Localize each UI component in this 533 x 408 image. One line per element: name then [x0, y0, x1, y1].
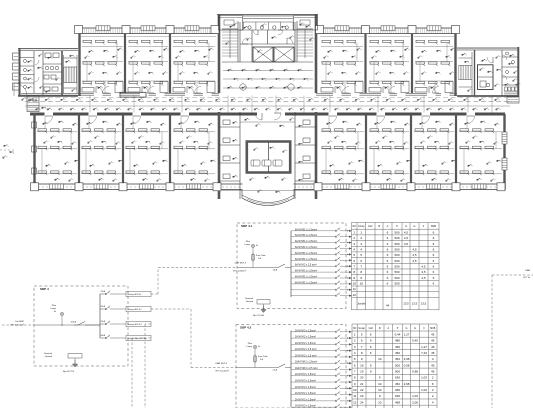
svg-text:45: 45: [431, 351, 435, 355]
svg-text:4,5: 4,5: [404, 236, 409, 240]
tower top center textured band and stalls: [243, 15, 293, 17]
floor plan: left site feeder marks: [3, 144, 9, 148]
svg-text:1,27: 1,27: [404, 332, 410, 336]
svg-text:480: 480: [395, 339, 400, 343]
right annex lavatory cluster: [505, 87, 508, 91]
svg-text:4,5: 4,5: [404, 230, 409, 234]
svg-text:45: 45: [431, 369, 435, 373]
svg-text:4,5: 4,5: [412, 259, 417, 263]
floor plan: left annex: [18, 48, 78, 50]
branch circuit 3 SDP4.2: [291, 343, 336, 345]
svg-text:500: 500: [394, 270, 399, 274]
svg-text:SDP 4.1: SDP 4.1: [241, 224, 252, 228]
branch circuit 1 SDP4.1: [291, 230, 336, 232]
wire feeder into SDP 4.2: [236, 367, 278, 369]
svg-text:Din MSP: Din MSP: [15, 321, 24, 323]
svg-text:450: 450: [395, 345, 400, 349]
svg-text:6A NYM3 1 x 2,5mm²: 6A NYM3 1 x 2,5mm²: [295, 240, 317, 243]
floor plan: gray structural walls: [218, 14, 221, 93]
svg-text:Pilot: Pilot: [246, 240, 251, 243]
svg-text:Backup SDP 4-2: Backup SDP 4-2: [128, 309, 142, 311]
branch circuit 9 SDP4.2: [291, 381, 336, 383]
svg-text:3x: 3x: [256, 245, 258, 247]
svg-text:5,45: 5,45: [412, 339, 418, 343]
svg-text:NYY 4x: NYY 4x: [523, 277, 530, 279]
svg-text:22: 22: [360, 388, 364, 392]
pilot lamp SDP4: [60, 312, 63, 315]
svg-text:Group: Group: [359, 327, 366, 330]
pilot lamp SDP4.1: [251, 244, 254, 247]
branch circuit 2 SDP4.2: [291, 337, 336, 339]
right annex right column cells: [502, 56, 518, 58]
svg-text:Backup SDP 4-1: Backup SDP 4-1: [128, 294, 142, 296]
svg-text:2A NYM 2 x 1,5 mm²: 2A NYM 2 x 1,5 mm²: [295, 348, 317, 351]
svg-text:13,5: 13,5: [403, 301, 409, 305]
right annex stair: [458, 66, 460, 80]
svg-text:Fuse Tube: Fuse Tube: [256, 255, 266, 257]
svg-text:2A NYM 2 x 1,5mm²: 2A NYM 2 x 1,5mm²: [295, 336, 316, 339]
svg-text:452: 452: [395, 357, 400, 361]
svg-text:Inst/: Inst/: [369, 327, 374, 330]
branch circuit 10 SDP4.1: [291, 283, 336, 285]
branch circuit 13 SDP4.2: [291, 406, 336, 408]
pilot lamp SDP4.2: [253, 345, 256, 348]
floor plan: top band texture and windows: [80, 28, 214, 34]
wire feeder into SDP 4.1: [237, 267, 278, 269]
svg-text:6A NYM3 1 x 2,5mm²: 6A NYM3 1 x 2,5mm²: [295, 234, 317, 237]
main switch 16A SDP4.1: [278, 264, 285, 268]
svg-text:45: 45: [431, 332, 435, 336]
svg-text:21: 21: [360, 382, 364, 386]
branch circuit 11 SDP4.1: [291, 289, 336, 291]
panel SDP 4.2 enclosure: [236, 325, 346, 408]
corridor devices: [29, 98, 34, 102]
svg-text:Jumlah: Jumlah: [357, 301, 366, 305]
svg-text:45: 45: [431, 345, 435, 349]
svg-text:2A NYM 2 x 1,5 mm²: 2A NYM 2 x 1,5 mm²: [295, 354, 317, 357]
svg-text:Rp ≤1,5 kΩ: Rp ≤1,5 kΩ: [253, 314, 264, 317]
svg-text:452: 452: [395, 382, 400, 386]
svg-text:2,68: 2,68: [404, 357, 410, 361]
svg-text:20: 20: [360, 376, 364, 380]
svg-text:6A NYM3 1 x 2,5mm²: 6A NYM3 1 x 2,5mm²: [295, 228, 317, 231]
busbar SDP4.1: [290, 231, 292, 297]
svg-text:23: 23: [360, 394, 364, 398]
svg-text:100 A: 100 A: [70, 321, 76, 324]
svg-text:11: 11: [353, 394, 356, 398]
wire backup SDP 4-3 riser: [145, 323, 151, 325]
wire backup separate rate riser: [132, 337, 151, 339]
svg-text:Pilot: Pilot: [248, 342, 253, 345]
breaker 25 A circuit Backup SDP 4-2: [100, 308, 106, 310]
svg-text:2A NYM 3 x 1,5mm²: 2A NYM 3 x 1,5mm²: [295, 379, 316, 382]
wire backup SDP 4-2 to SDP 4.2: [151, 308, 191, 310]
branch circuit 4 SDP4.1: [291, 248, 336, 250]
tower upper partitions: [239, 22, 241, 62]
svg-text:SDP 4: SDP 4: [40, 287, 49, 291]
svg-text:63 A: 63 A: [101, 334, 106, 337]
branch circuit 10 SDP4.2: [291, 387, 336, 389]
svg-text:500: 500: [394, 242, 399, 246]
label box Backup Separate Rate: [126, 335, 151, 340]
svg-text:4,5: 4,5: [421, 270, 426, 274]
svg-text:25 A: 25 A: [101, 320, 106, 323]
floor plan: left wall column boxes: [32, 122, 37, 128]
svg-text:2,68: 2,68: [404, 382, 410, 386]
svg-text:1,03: 1,03: [412, 394, 418, 398]
svg-text:6A NYM3 1 x 2,5mm²: 6A NYM3 1 x 2,5mm²: [295, 258, 317, 261]
svg-text:10: 10: [378, 357, 382, 361]
svg-text:Φ: Φ: [379, 327, 381, 330]
svg-text:2A NYM 3 x 1,5mm²: 2A NYM 3 x 1,5mm²: [295, 386, 316, 389]
floor plan: top-left wing rooms: [81, 36, 124, 38]
floor plan: door gaps in corridor walls: [111, 93, 120, 96]
fuse tube 2A SDP4.2: [254, 356, 257, 362]
branch circuit 5 SDP4.2: [291, 356, 336, 358]
right annex porch: [507, 97, 519, 104]
bay window arcs: [242, 198, 294, 206]
svg-text:500: 500: [394, 282, 399, 286]
svg-text:360: 360: [395, 388, 400, 392]
svg-text:10: 10: [378, 382, 382, 386]
busbar SDP4: [99, 294, 101, 338]
svg-text:0,88: 0,88: [412, 369, 418, 373]
branch circuit 1 SDP4.2: [291, 331, 336, 333]
svg-text:4,5: 4,5: [404, 242, 409, 246]
svg-text:1,27: 1,27: [421, 345, 427, 349]
svg-text:4,5: 4,5: [412, 253, 417, 257]
svg-text:0,44: 0,44: [395, 332, 401, 336]
svg-text:1,03: 1,03: [421, 376, 427, 380]
svg-text:6A NYM 2 x 2,5 mm²: 6A NYM 2 x 2,5 mm²: [295, 264, 317, 267]
label box Backup SDP 4-3: [126, 321, 151, 326]
central extension hall devices: [240, 121, 295, 123]
fuse tube 2A SDP4.1: [252, 255, 255, 261]
svg-text:Terminal: Terminal: [245, 297, 254, 300]
svg-text:19: 19: [360, 369, 364, 373]
label box Backup SDP 4-1: [126, 291, 151, 296]
svg-text:NYY 4x16 mm²: NYY 4x16 mm²: [10, 324, 24, 327]
svg-text:500: 500: [394, 247, 399, 251]
svg-text:6A NYM3 1 x 2,5mm²: 6A NYM3 1 x 2,5mm²: [295, 270, 317, 273]
svg-text:500: 500: [394, 236, 399, 240]
left annex stair: [63, 67, 65, 83]
branch circuit 4 SDP4.2: [291, 350, 336, 352]
load schedule table SDP 4.2: [352, 324, 437, 408]
floor plan: left annex outside boxes: [13, 53, 20, 60]
svg-text:500: 500: [395, 369, 400, 373]
main switch 100A SDP4: [74, 324, 78, 326]
feeder wire Din MSP to SDP 4: [2, 324, 34, 326]
floor plan: corridor conduit line: [25, 105, 510, 107]
floor plan: corridor cable tray box: [120, 92, 146, 97]
svg-text:6A NYM3 1 x 2,5mm²: 6A NYM3 1 x 2,5mm²: [295, 281, 317, 284]
central inner room: [246, 140, 292, 143]
hall ceiling lamps: [240, 84, 246, 90]
svg-text:Ir: Ir: [423, 225, 425, 228]
panel SDP 4.1 enclosure: [237, 223, 346, 309]
svg-text:Group: Group: [358, 225, 365, 228]
load schedule table SDP 4.1: [352, 223, 440, 310]
floor plan: right wall windows bottom wing: [502, 132, 507, 144]
svg-text:44: 44: [386, 303, 390, 307]
wire SDP4 main: [34, 324, 100, 326]
svg-text:2A NYM 3 x 1,5mm²: 2A NYM 3 x 1,5mm²: [295, 329, 316, 332]
floor plan: left annex entry porch: [27, 96, 39, 112]
breaker 25 A circuit Backup SDP 4-3: [100, 323, 106, 325]
svg-text:500: 500: [394, 259, 399, 263]
branch circuit 7 SDP4.1: [291, 265, 336, 267]
svg-text:Lamp: Lamp: [247, 346, 253, 348]
svg-text:19: 19: [360, 363, 364, 367]
panel SDP 4 enclosure: [34, 286, 128, 366]
branch circuit 11 SDP4.2: [291, 394, 336, 396]
svg-text:10: 10: [353, 282, 357, 286]
floor plan: bottom band texture and windows: [34, 186, 505, 188]
svg-text:Φ: Φ: [378, 225, 380, 228]
svg-text:4,5: 4,5: [421, 264, 426, 268]
svg-text:11: 11: [353, 287, 356, 291]
svg-text:Inst/: Inst/: [368, 225, 373, 228]
svg-text:2A NYM 3 x 1,5mm²: 2A NYM 3 x 1,5mm²: [295, 405, 316, 408]
svg-text:Rp ≤4,27 Ω: Rp ≤4,27 Ω: [63, 370, 74, 373]
svg-text:2A NYM 3 x 1,5mm²: 2A NYM 3 x 1,5mm²: [295, 373, 316, 376]
branch circuit 8 SDP4.2: [291, 375, 336, 377]
floor plan: corridor dashed centerlines: [25, 97, 512, 99]
svg-text:Backup Separate Rate: Backup Separate Rate: [128, 337, 147, 340]
svg-text:500: 500: [394, 230, 399, 234]
svg-text:DAR SDP 4: DAR SDP 4: [215, 362, 227, 365]
floor plan: extension corridor opening: [257, 112, 285, 115]
svg-text:MCB: MCB: [430, 328, 436, 330]
floor plan: exterior walls: [78, 27, 217, 29]
svg-text:6A NYM3 1 x 2,5mm²: 6A NYM3 1 x 2,5mm²: [295, 252, 317, 255]
svg-text:16 A: 16 A: [273, 269, 278, 272]
svg-text:2A NYM 3 x 1,5mm²: 2A NYM 3 x 1,5mm²: [295, 398, 316, 401]
feeder DAR right riser: [492, 274, 533, 276]
svg-text:45: 45: [431, 363, 435, 367]
breaker 63 A circuit Backup Separate Rate: [100, 337, 106, 339]
svg-text:2A NYM 2 x 1,5mm²: 2A NYM 2 x 1,5mm²: [295, 342, 316, 345]
branch circuit 12 SDP4.2: [291, 400, 336, 402]
main switch 16A SDP4.2: [278, 364, 285, 368]
svg-text:13,5: 13,5: [421, 301, 427, 305]
svg-text:Ground: Ground: [45, 355, 53, 358]
branch circuit 8 SDP4.1: [291, 271, 336, 273]
svg-text:12: 12: [353, 400, 357, 404]
svg-text:Fuse Tube: Fuse Tube: [258, 356, 268, 358]
svg-text:Pilot: Pilot: [52, 304, 57, 307]
branch circuit 6 SDP4.2: [291, 362, 336, 364]
svg-text:3x: 3x: [258, 346, 260, 348]
svg-text:450: 450: [395, 351, 400, 355]
svg-text:636: 636: [395, 394, 400, 398]
breaker 25 A circuit Backup SDP 4-1: [100, 293, 106, 295]
svg-text:6A NYM3 1 x 2,5mm²: 6A NYM3 1 x 2,5mm²: [295, 246, 317, 249]
svg-text:12: 12: [353, 293, 357, 297]
right annex inner room: [478, 65, 494, 90]
ground electrode SDP4: [72, 360, 77, 367]
svg-text:7,23: 7,23: [421, 351, 427, 355]
svg-text:25 A: 25 A: [101, 305, 106, 308]
svg-text:Lamp: Lamp: [51, 308, 57, 310]
branch circuit 5 SDP4.1: [291, 253, 336, 255]
corridor crossing conduits: [89, 96, 91, 113]
tower lower hall: [222, 61, 313, 63]
branch circuit 3 SDP4.1: [291, 242, 336, 244]
svg-text:NO: NO: [353, 328, 357, 330]
svg-text:10A NYM 2 x 2,5mm²: 10A NYM 2 x 2,5mm²: [295, 361, 317, 364]
svg-text:10: 10: [360, 282, 364, 286]
svg-text:NYY 4x10mm²: NYY 4x10mm²: [233, 270, 246, 273]
branch circuit 2 SDP4.1: [291, 236, 336, 238]
svg-text:500: 500: [394, 276, 399, 280]
svg-text:16A NYM 2 x 2,5 mm²: 16A NYM 2 x 2,5 mm²: [295, 367, 318, 370]
svg-text:24: 24: [360, 400, 364, 404]
svg-text:500: 500: [395, 363, 400, 367]
svg-text:6A NYM3 1 x 2,5mm²: 6A NYM3 1 x 2,5mm²: [295, 275, 317, 278]
elevator shafts: [253, 47, 273, 62]
svg-text:4,5: 4,5: [421, 276, 426, 280]
svg-text:500: 500: [394, 253, 399, 257]
svg-text:Ir: Ir: [423, 327, 425, 330]
svg-text:25 A: 25 A: [101, 290, 106, 293]
svg-text:2,06: 2,06: [412, 400, 418, 404]
svg-text:Ground: Ground: [246, 300, 254, 303]
label box Backup SDP 4-2: [126, 306, 151, 311]
svg-text:Lamp: Lamp: [245, 244, 251, 246]
svg-text:636: 636: [395, 376, 400, 380]
svg-text:4,5: 4,5: [412, 247, 417, 251]
svg-text:DAR: DAR: [525, 269, 530, 272]
svg-text:NO: NO: [353, 226, 357, 228]
svg-text:Backup SDP 4-3: Backup SDP 4-3: [128, 324, 142, 326]
svg-text:500: 500: [394, 264, 399, 268]
floor plan: central tower interior: [222, 28, 238, 30]
svg-text:2A NYM 2 x 1,5mm²: 2A NYM 2 x 1,5mm²: [295, 392, 316, 395]
branch circuit 6 SDP4.1: [291, 259, 336, 261]
svg-text:21 A: 21 A: [273, 369, 278, 372]
floor plan: bottom wing rooms: [45, 116, 53, 124]
tower stall row base: [240, 29, 295, 31]
branch circuit 12 SDP4.1: [291, 295, 336, 297]
busbar SDP4.2: [290, 331, 292, 408]
svg-text:10: 10: [378, 388, 382, 392]
svg-text:1,04: 1,04: [421, 388, 427, 392]
floor plan: bay opening in bottom band: [243, 183, 294, 192]
tower top corner rooms: [219, 16, 243, 31]
svg-text:0,58: 0,58: [404, 363, 410, 367]
ground electrode SDP4.1: [261, 306, 266, 313]
branch circuit 9 SDP4.1: [291, 277, 336, 279]
svg-text:10: 10: [378, 400, 382, 404]
svg-text:SDP 4.2: SDP 4.2: [240, 326, 251, 330]
floor plan: right annex: [457, 47, 519, 49]
svg-text:45: 45: [431, 339, 435, 343]
svg-text:NYY 4x4,0mm²: NYY 4x4,0mm²: [215, 370, 229, 373]
svg-text:CAH SDP 4: CAH SDP 4: [234, 262, 246, 265]
svg-text:468: 468: [395, 400, 400, 404]
wire backup SDP 4-1 to SDP 4.1: [151, 293, 158, 295]
svg-text:13,5: 13,5: [412, 301, 418, 305]
svg-text:Terminal: Terminal: [44, 352, 53, 355]
svg-text:10: 10: [353, 388, 357, 392]
branch circuit 7 SDP4.2: [291, 368, 336, 370]
floor plan: central extension interior: [239, 112, 241, 199]
svg-text:MCB: MCB: [431, 226, 437, 228]
